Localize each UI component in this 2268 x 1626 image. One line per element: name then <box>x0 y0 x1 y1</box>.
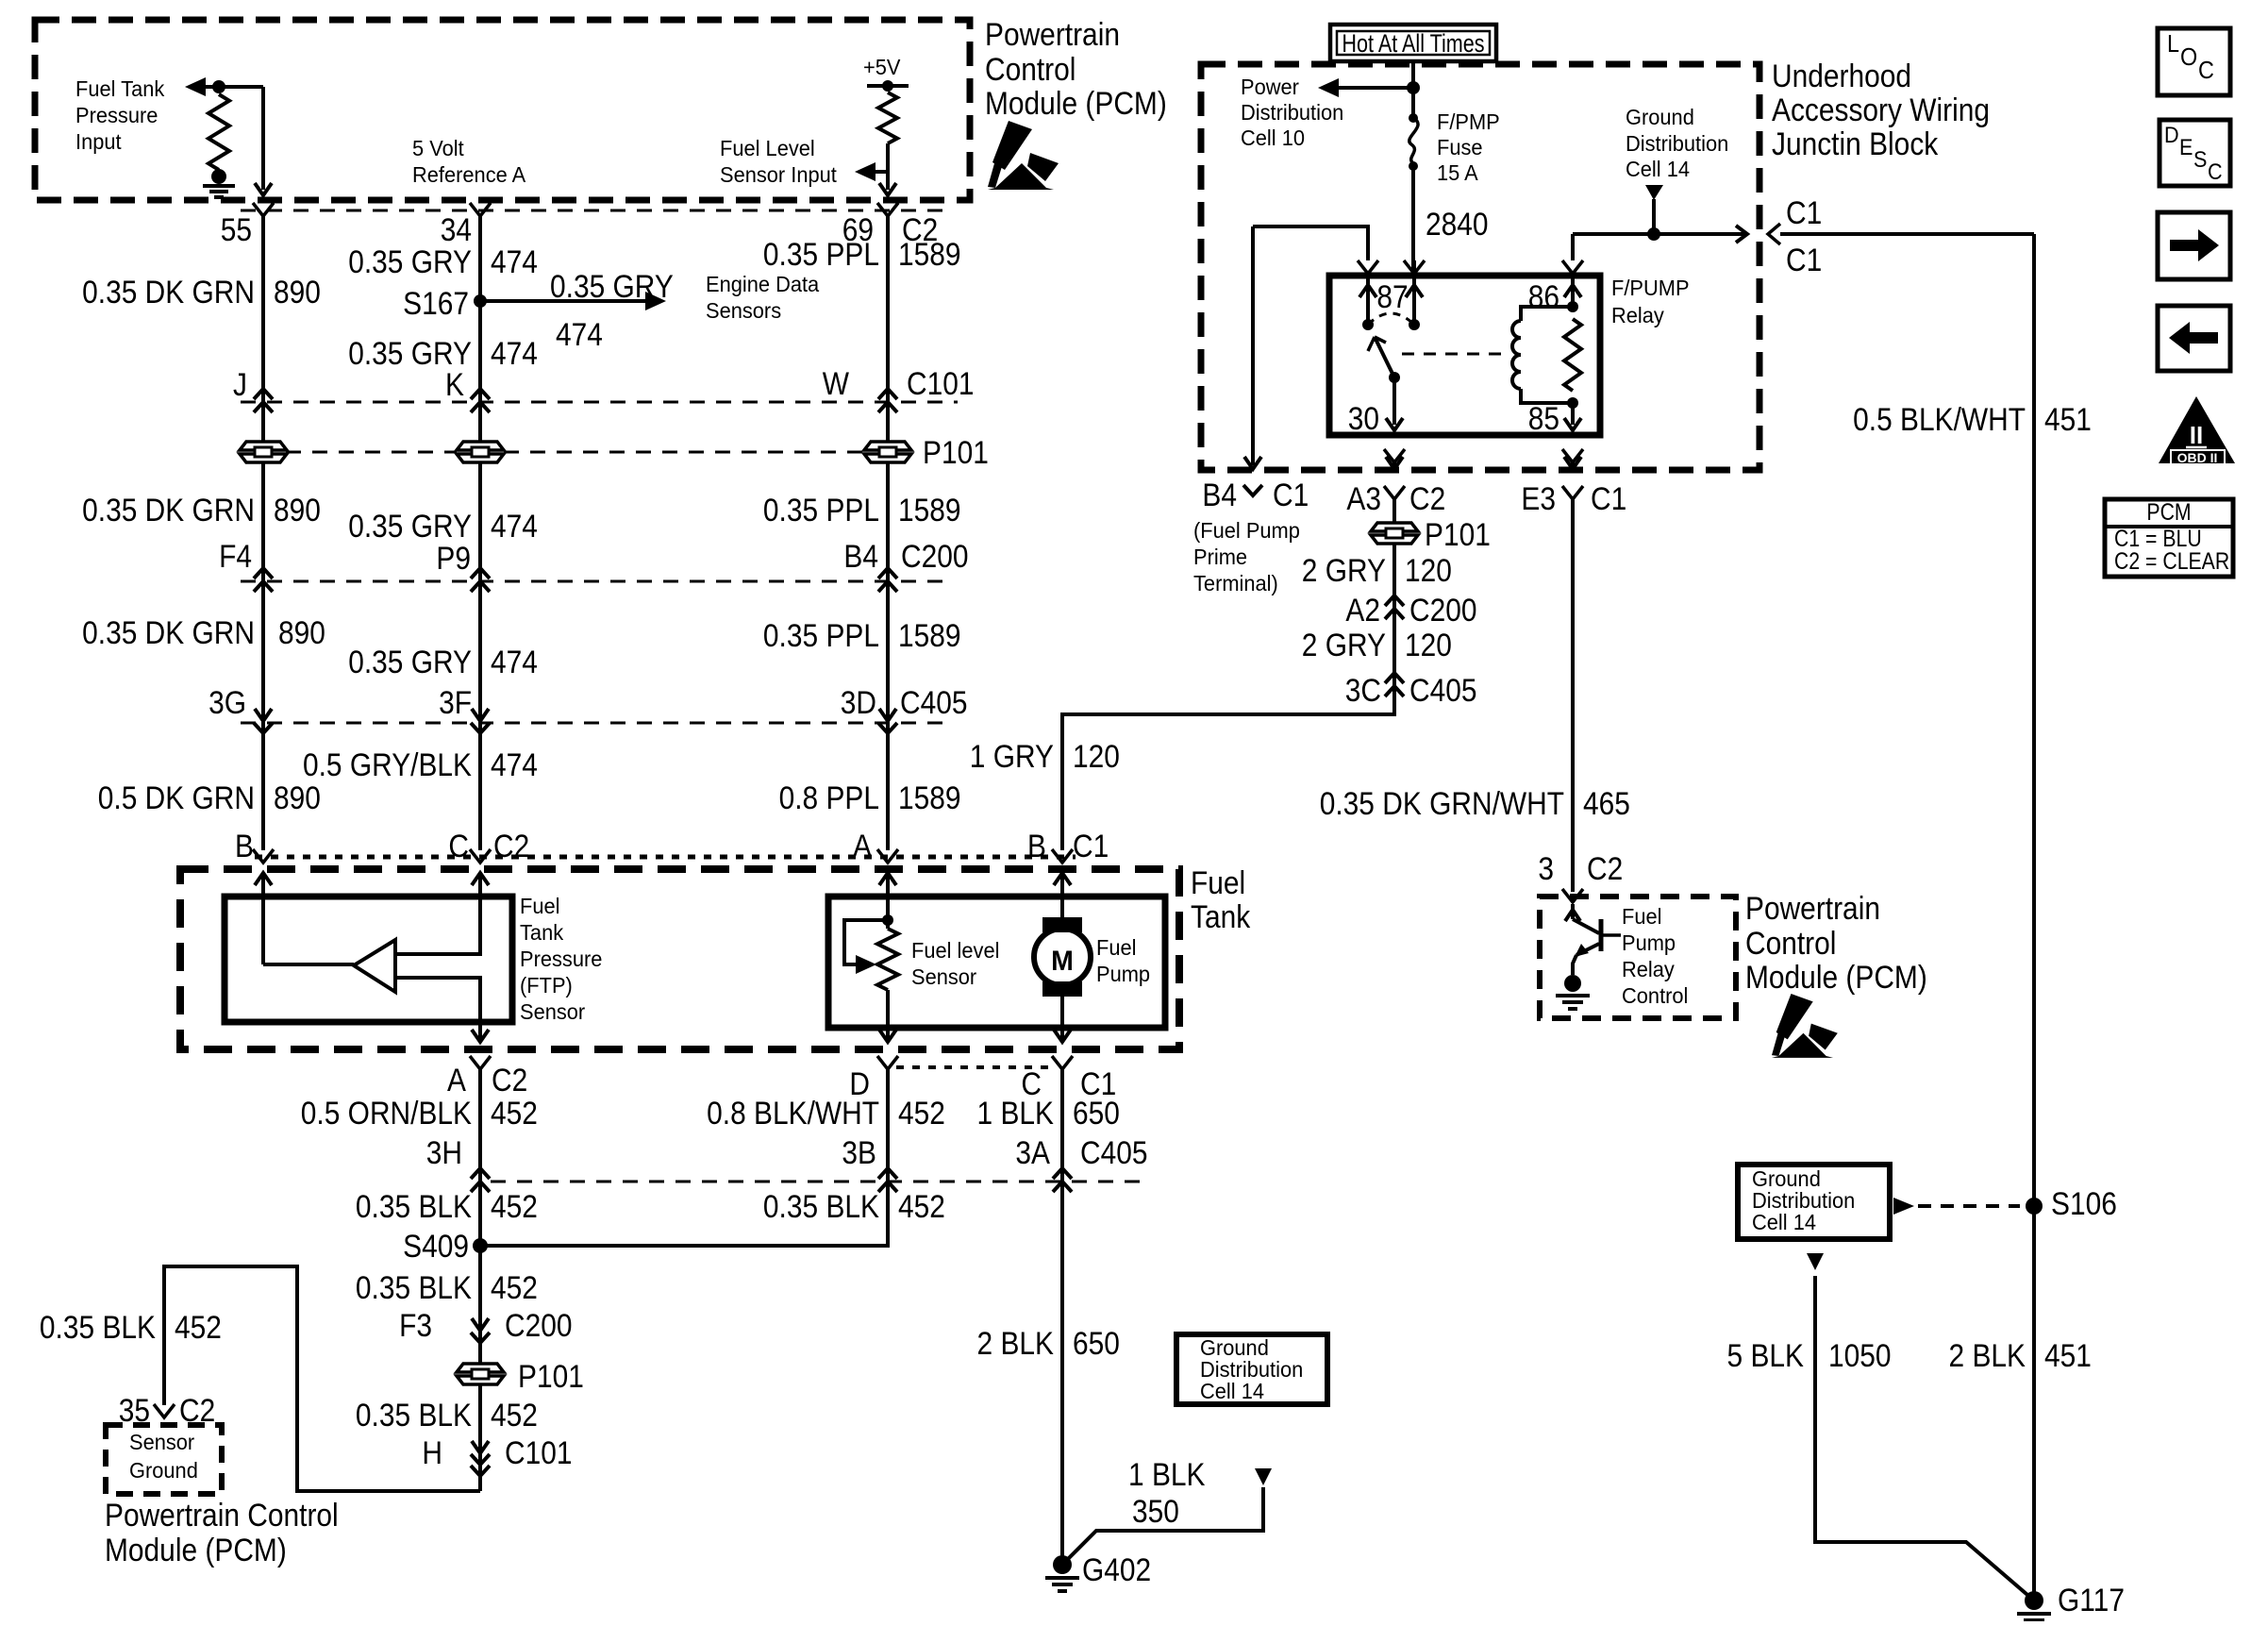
svg-text:A: A <box>853 828 873 863</box>
svg-text:Accessory Wiring: Accessory Wiring <box>1772 92 1990 127</box>
svg-text:Pressure: Pressure <box>520 947 602 971</box>
svg-text:Cell 14: Cell 14 <box>1200 1379 1264 1403</box>
svg-text:Fuel level: Fuel level <box>911 938 999 963</box>
svg-text:Fuel: Fuel <box>1191 864 1245 900</box>
svg-text:Cell 14: Cell 14 <box>1752 1210 1816 1234</box>
svg-text:2 BLK: 2 BLK <box>1949 1337 2026 1373</box>
svg-text:5 BLK: 5 BLK <box>1727 1337 1804 1373</box>
svg-text:650: 650 <box>1073 1095 1120 1131</box>
svg-text:(FTP): (FTP) <box>520 973 573 997</box>
svg-text:Reference A: Reference A <box>412 162 525 187</box>
svg-text:P101: P101 <box>923 434 989 470</box>
svg-text:Distribution: Distribution <box>1241 100 1343 125</box>
svg-text:890: 890 <box>274 274 321 310</box>
svg-text:0.5 ORN/BLK: 0.5 ORN/BLK <box>301 1095 472 1131</box>
svg-text:1589: 1589 <box>898 617 961 653</box>
svg-text:Module (PCM): Module (PCM) <box>985 85 1167 121</box>
svg-text:H: H <box>422 1434 442 1470</box>
svg-text:2 GRY: 2 GRY <box>1302 627 1386 662</box>
svg-text:OBD II: OBD II <box>2177 450 2218 465</box>
svg-text:0.35 PPL: 0.35 PPL <box>763 236 879 272</box>
svg-text:Hot At All Times: Hot At All Times <box>1342 30 1484 59</box>
svg-text:B4: B4 <box>843 538 878 574</box>
svg-text:451: 451 <box>2044 401 2092 437</box>
svg-text:C2 = CLEAR: C2 = CLEAR <box>2114 547 2229 574</box>
svg-text:Prime: Prime <box>1193 545 1247 569</box>
svg-text:3B: 3B <box>842 1134 876 1170</box>
svg-text:Sensor Input: Sensor Input <box>720 162 838 187</box>
svg-text:B: B <box>1027 828 1046 863</box>
svg-text:474: 474 <box>491 243 538 279</box>
svg-text:0.35 GRY: 0.35 GRY <box>550 268 674 304</box>
svg-text:452: 452 <box>175 1309 222 1345</box>
svg-text:Sensor: Sensor <box>520 999 586 1024</box>
svg-text:C1: C1 <box>1073 828 1109 863</box>
svg-text:A3: A3 <box>1346 480 1381 516</box>
svg-text:G402: G402 <box>1082 1551 1151 1587</box>
svg-text:2 BLK: 2 BLK <box>977 1325 1054 1361</box>
svg-text:J: J <box>233 366 247 402</box>
svg-text:350: 350 <box>1132 1493 1179 1529</box>
svg-text:474: 474 <box>491 746 538 782</box>
svg-text:C101: C101 <box>907 365 975 401</box>
svg-text:Module (PCM): Module (PCM) <box>1745 959 1927 995</box>
svg-text:Control: Control <box>1622 983 1688 1008</box>
svg-text:Powertrain: Powertrain <box>985 16 1120 52</box>
svg-text:Cell 10: Cell 10 <box>1241 126 1305 150</box>
svg-text:Fuel Level: Fuel Level <box>720 136 815 160</box>
svg-text:87: 87 <box>1376 278 1408 314</box>
svg-text:0.5 GRY/BLK: 0.5 GRY/BLK <box>303 746 472 782</box>
svg-text:3H: 3H <box>426 1134 462 1170</box>
svg-text:890: 890 <box>278 614 325 650</box>
svg-text:474: 474 <box>491 508 538 544</box>
svg-text:0.35 DK GRN/WHT: 0.35 DK GRN/WHT <box>1320 785 1564 821</box>
svg-text:452: 452 <box>491 1397 538 1433</box>
svg-text:Relay: Relay <box>1611 303 1665 327</box>
svg-text:452: 452 <box>898 1188 945 1224</box>
svg-text:A2: A2 <box>1345 592 1380 628</box>
svg-text:S: S <box>2193 146 2207 172</box>
svg-text:C: C <box>2198 58 2214 84</box>
svg-text:Cell 14: Cell 14 <box>1626 157 1690 181</box>
svg-text:15 A: 15 A <box>1437 160 1478 185</box>
svg-text:M: M <box>1051 946 1074 977</box>
svg-text:(Fuel Pump: (Fuel Pump <box>1193 518 1300 543</box>
svg-text:0.35 BLK: 0.35 BLK <box>40 1309 156 1345</box>
svg-text:II: II <box>2190 421 2203 449</box>
svg-text:1589: 1589 <box>898 236 961 272</box>
svg-text:Power: Power <box>1241 75 1299 99</box>
svg-text:C200: C200 <box>1409 592 1477 628</box>
svg-text:S106: S106 <box>2051 1185 2117 1221</box>
svg-text:C200: C200 <box>505 1307 573 1343</box>
svg-text:0.35 BLK: 0.35 BLK <box>356 1188 472 1224</box>
svg-text:35: 35 <box>119 1392 150 1428</box>
svg-text:474: 474 <box>491 644 538 679</box>
svg-text:K: K <box>445 366 464 402</box>
svg-text:Ground: Ground <box>1200 1335 1269 1360</box>
svg-text:474: 474 <box>556 316 603 352</box>
svg-text:Control: Control <box>985 51 1076 87</box>
svg-text:86: 86 <box>1528 278 1559 314</box>
svg-text:B: B <box>235 828 254 863</box>
svg-text:Powertrain: Powertrain <box>1745 890 1880 926</box>
svg-text:451: 451 <box>2044 1337 2092 1373</box>
svg-text:Fuse: Fuse <box>1437 135 1483 159</box>
svg-text:S167: S167 <box>403 285 469 321</box>
svg-text:2 GRY: 2 GRY <box>1302 552 1386 588</box>
svg-text:PCM: PCM <box>2146 498 2191 525</box>
svg-text:W: W <box>823 365 850 401</box>
svg-text:C405: C405 <box>1409 672 1477 708</box>
svg-text:Fuel: Fuel <box>1096 935 1136 960</box>
svg-text:30: 30 <box>1348 400 1379 436</box>
svg-text:0.35 BLK: 0.35 BLK <box>356 1397 472 1433</box>
svg-text:3A: 3A <box>1015 1134 1050 1170</box>
svg-text:3F: 3F <box>439 684 472 720</box>
svg-text:452: 452 <box>898 1095 945 1131</box>
svg-text:Sensor: Sensor <box>129 1430 195 1454</box>
svg-text:Relay: Relay <box>1622 957 1676 981</box>
svg-text:C405: C405 <box>1080 1134 1148 1170</box>
svg-text:120: 120 <box>1073 738 1120 774</box>
svg-text:890: 890 <box>274 492 321 528</box>
svg-text:5 Volt: 5 Volt <box>412 136 464 160</box>
svg-text:Fuel: Fuel <box>520 894 559 918</box>
svg-text:C1: C1 <box>1786 242 1822 277</box>
svg-text:3D: 3D <box>841 684 876 720</box>
svg-text:Powertrain Control: Powertrain Control <box>105 1497 339 1533</box>
svg-text:C101: C101 <box>505 1434 573 1470</box>
svg-text:890: 890 <box>274 779 321 815</box>
svg-text:1 BLK: 1 BLK <box>1128 1456 1205 1492</box>
svg-text:1589: 1589 <box>898 779 961 815</box>
svg-text:0.35 GRY: 0.35 GRY <box>348 508 472 544</box>
svg-text:34: 34 <box>441 211 472 247</box>
svg-text:E3: E3 <box>1521 480 1556 516</box>
svg-text:B4: B4 <box>1202 477 1237 512</box>
svg-text:F/PMP: F/PMP <box>1437 109 1500 134</box>
svg-text:P9: P9 <box>436 540 471 576</box>
svg-text:O: O <box>2180 44 2197 71</box>
svg-text:C2: C2 <box>493 828 529 863</box>
svg-text:55: 55 <box>221 211 252 247</box>
svg-text:0.35 BLK: 0.35 BLK <box>763 1188 879 1224</box>
svg-text:E: E <box>2179 134 2193 159</box>
svg-text:L: L <box>2167 31 2179 58</box>
svg-text:0.35 DK GRN: 0.35 DK GRN <box>82 274 255 310</box>
svg-text:Tank: Tank <box>520 920 564 945</box>
svg-text:452: 452 <box>491 1095 538 1131</box>
svg-text:Ground: Ground <box>1626 105 1694 129</box>
svg-text:3G: 3G <box>208 684 246 720</box>
svg-text:Distribution: Distribution <box>1752 1188 1855 1213</box>
svg-text:C: C <box>448 828 469 863</box>
svg-text:+5V: +5V <box>863 55 901 79</box>
svg-text:1050: 1050 <box>1828 1337 1892 1373</box>
svg-text:C2: C2 <box>1409 480 1445 516</box>
svg-text:C: C <box>2208 159 2223 184</box>
svg-text:C2: C2 <box>492 1062 527 1098</box>
svg-text:Input: Input <box>75 129 122 154</box>
svg-text:465: 465 <box>1583 785 1630 821</box>
svg-text:Sensors: Sensors <box>706 298 781 323</box>
svg-text:2840: 2840 <box>1426 206 1489 242</box>
svg-text:Distribution: Distribution <box>1200 1357 1303 1382</box>
svg-text:Terminal): Terminal) <box>1193 571 1278 595</box>
svg-text:0.35 DK GRN: 0.35 DK GRN <box>82 492 255 528</box>
svg-text:Underhood: Underhood <box>1772 58 1911 93</box>
svg-text:0.35 PPL: 0.35 PPL <box>763 617 879 653</box>
svg-text:3: 3 <box>1538 850 1554 886</box>
svg-text:0.35 DK GRN: 0.35 DK GRN <box>82 614 255 650</box>
svg-text:G117: G117 <box>2058 1582 2125 1618</box>
svg-text:Pump: Pump <box>1096 962 1150 986</box>
svg-text:C2: C2 <box>1587 850 1623 886</box>
svg-text:1589: 1589 <box>898 492 961 528</box>
svg-text:0.5 BLK/WHT: 0.5 BLK/WHT <box>1853 401 2026 437</box>
svg-text:120: 120 <box>1405 627 1452 662</box>
svg-text:85: 85 <box>1528 400 1559 436</box>
svg-text:474: 474 <box>491 335 538 371</box>
svg-text:Junctin Block: Junctin Block <box>1772 126 1939 161</box>
svg-text:Ground: Ground <box>129 1458 198 1483</box>
svg-text:452: 452 <box>491 1269 538 1305</box>
svg-text:C405: C405 <box>900 684 968 720</box>
svg-text:Tank: Tank <box>1191 898 1251 934</box>
svg-text:0.35 GRY: 0.35 GRY <box>348 243 472 279</box>
svg-text:F/PUMP: F/PUMP <box>1611 276 1690 300</box>
svg-text:0.8 BLK/WHT: 0.8 BLK/WHT <box>707 1095 879 1131</box>
svg-text:0.35 PPL: 0.35 PPL <box>763 492 879 528</box>
svg-text:Distribution: Distribution <box>1626 131 1728 156</box>
svg-text:Engine Data: Engine Data <box>706 272 820 296</box>
svg-text:452: 452 <box>491 1188 538 1224</box>
svg-text:C1: C1 <box>1273 477 1309 512</box>
svg-text:A: A <box>447 1062 467 1098</box>
svg-text:0.5 DK GRN: 0.5 DK GRN <box>98 779 255 815</box>
svg-text:1 BLK: 1 BLK <box>977 1095 1054 1131</box>
svg-text:C1: C1 <box>1786 194 1822 230</box>
svg-text:C2: C2 <box>179 1392 215 1428</box>
svg-text:Ground: Ground <box>1752 1166 1821 1191</box>
svg-text:650: 650 <box>1073 1325 1120 1361</box>
svg-text:1 GRY: 1 GRY <box>970 738 1054 774</box>
svg-text:P101: P101 <box>518 1358 584 1394</box>
svg-text:F3: F3 <box>399 1307 432 1343</box>
svg-text:3C: 3C <box>1345 672 1381 708</box>
svg-text:Sensor: Sensor <box>911 964 977 989</box>
svg-text:D: D <box>2164 122 2179 147</box>
svg-text:Control: Control <box>1745 925 1836 961</box>
svg-text:Fuel: Fuel <box>1622 904 1661 929</box>
svg-text:P101: P101 <box>1425 516 1491 552</box>
svg-text:0.35 GRY: 0.35 GRY <box>348 644 472 679</box>
svg-text:S409: S409 <box>403 1228 469 1264</box>
svg-text:120: 120 <box>1405 552 1452 588</box>
svg-text:C1: C1 <box>1591 480 1626 516</box>
svg-text:Module (PCM): Module (PCM) <box>105 1532 287 1567</box>
svg-text:0.8 PPL: 0.8 PPL <box>779 779 879 815</box>
svg-text:Pump: Pump <box>1622 930 1676 955</box>
svg-text:C200: C200 <box>901 538 969 574</box>
svg-text:Fuel Tank: Fuel Tank <box>75 76 165 101</box>
svg-text:Pressure: Pressure <box>75 103 158 127</box>
svg-text:F4: F4 <box>219 538 252 574</box>
svg-text:0.35 BLK: 0.35 BLK <box>356 1269 472 1305</box>
